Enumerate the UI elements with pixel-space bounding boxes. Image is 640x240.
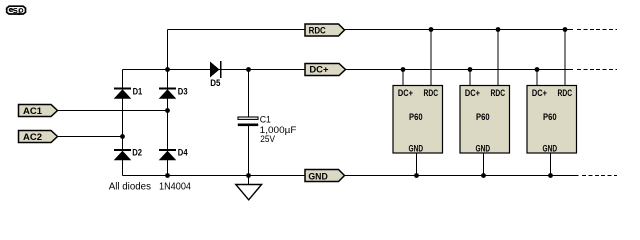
junction node RDC module U1: [429, 27, 434, 32]
ground: [236, 185, 262, 200]
svg-text:D1: D1: [133, 86, 143, 96]
svg-text:P60: P60: [543, 112, 557, 122]
junction node DC+/bridge: [165, 67, 170, 72]
wire GND rail dashed continuation: [582, 175, 617, 177]
wire bridge right column: [167, 30, 169, 176]
junction node RDC module U3: [563, 27, 568, 32]
svg-text:25V: 25V: [260, 134, 275, 145]
svg-text:GND: GND: [308, 172, 328, 183]
svg-text:AC2: AC2: [23, 132, 42, 143]
diode D1: [114, 86, 143, 98]
svg-text:All diodes: All diodes: [109, 181, 151, 192]
junction node GND module U1: [414, 173, 419, 178]
svg-text:P60: P60: [409, 112, 423, 122]
wire AC1 to bridge: [58, 110, 168, 112]
junction node RDC module U2: [496, 27, 501, 32]
junction node GND/C1: [246, 173, 251, 178]
svg-text:1N4004: 1N4004: [159, 181, 191, 192]
junction node DC+/C1: [246, 67, 251, 72]
junction node AC2/bridge: [120, 134, 125, 139]
terminal flag GND: [305, 170, 345, 183]
wire RDC rail: [168, 29, 574, 31]
wire AC2 to bridge: [58, 136, 123, 138]
junction node AC1/bridge: [165, 108, 170, 113]
wire bridge left column: [122, 70, 124, 176]
terminal flag RDC: [305, 24, 345, 37]
wire GND rail: [123, 175, 579, 177]
svg-text:DC+: DC+: [398, 88, 413, 98]
svg-text:DC+: DC+: [309, 65, 329, 76]
diode D5: [210, 61, 221, 88]
wire DC+ rail: [123, 69, 574, 71]
junction node GND module U3: [548, 173, 553, 178]
junction node GND module U2: [481, 173, 486, 178]
svg-text:P60: P60: [476, 112, 490, 122]
module U2 P60: [460, 30, 510, 176]
module U1 P60: [393, 30, 443, 176]
svg-text:RDC: RDC: [309, 26, 326, 37]
capacitor C1: [238, 115, 297, 145]
svg-text:D4: D4: [178, 147, 188, 157]
svg-text:D5: D5: [210, 78, 220, 88]
diode D2: [114, 147, 142, 160]
module U3 P60: [527, 30, 577, 176]
svg-text:RDC: RDC: [424, 88, 439, 98]
svg-text:GND: GND: [409, 144, 424, 154]
junction node DC+ module U3: [535, 67, 540, 72]
diode D3: [159, 86, 188, 98]
wire capacitor branch upper: [248, 70, 250, 118]
junction node GND/bridge: [165, 173, 170, 178]
svg-text:DC+: DC+: [532, 88, 547, 98]
svg-text:D2: D2: [132, 147, 142, 157]
junction node DC+ module U1: [401, 67, 406, 72]
svg-text:AC1: AC1: [23, 106, 43, 117]
terminal flag AC1: [19, 105, 58, 118]
junction node DC+ module U2: [468, 67, 473, 72]
wire capacitor branch lower: [248, 126, 250, 185]
wire DC+ rail dashed continuation: [577, 69, 617, 71]
svg-text:D3: D3: [178, 86, 188, 96]
diode D4: [159, 147, 188, 160]
terminal flag DC+: [305, 64, 346, 76]
svg-text:GND: GND: [476, 144, 491, 154]
terminal flag AC2: [19, 131, 58, 144]
esp logo: [7, 6, 26, 15]
svg-text:RDC: RDC: [558, 88, 573, 98]
svg-text:GND: GND: [543, 144, 558, 154]
wire RDC rail dashed continuation: [577, 29, 617, 31]
svg-text:RDC: RDC: [491, 88, 506, 98]
svg-text:DC+: DC+: [465, 88, 480, 98]
